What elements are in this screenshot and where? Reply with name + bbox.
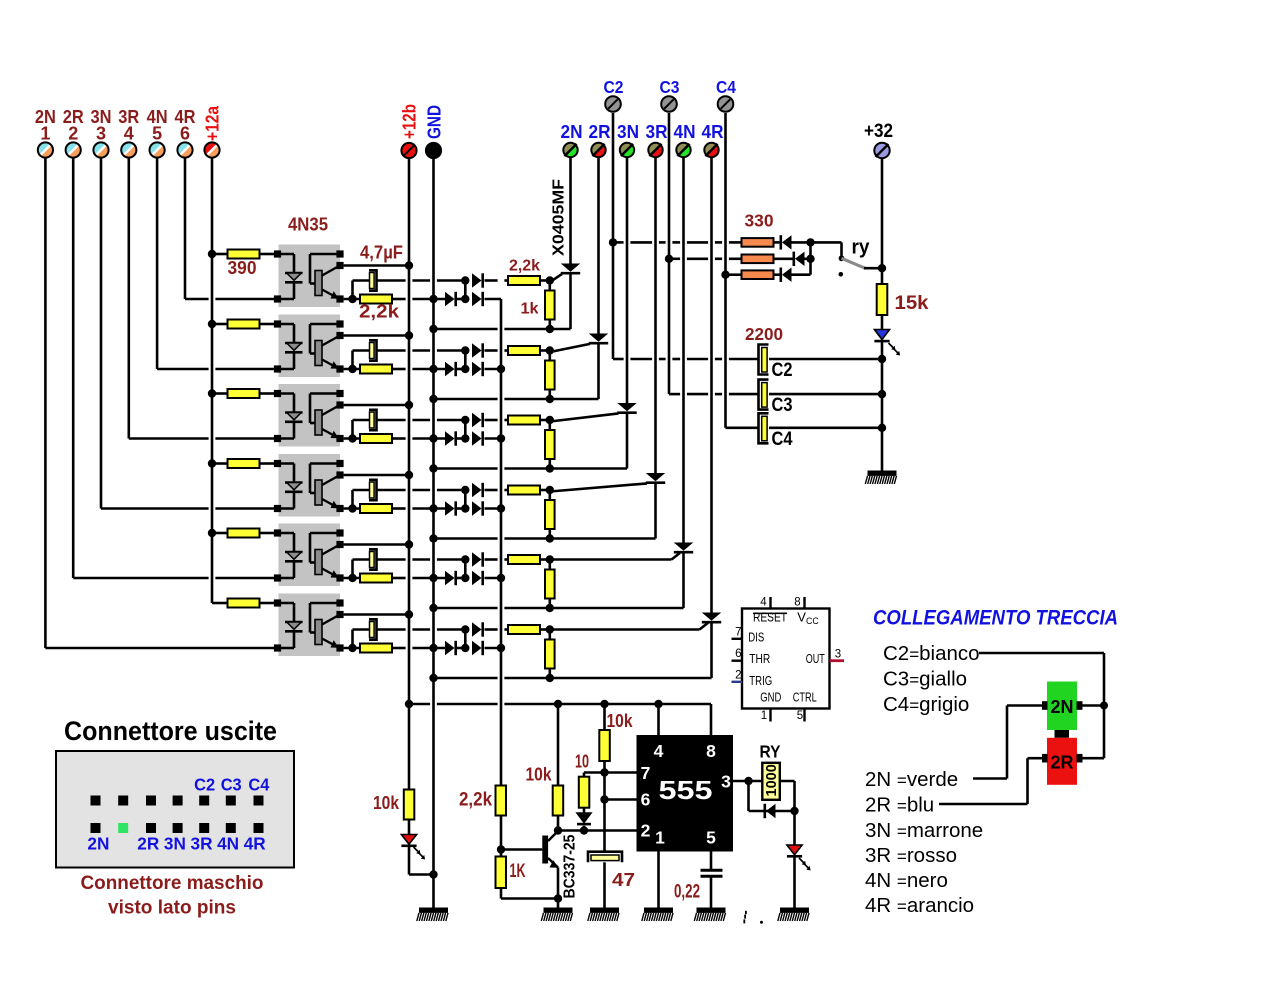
thyristor X0405MF row3: [617, 403, 636, 469]
wire C2 rail right: [769, 358, 882, 361]
node cap rail join y427.8: [878, 424, 886, 432]
svg-text:Connettore uscite: Connettore uscite: [64, 716, 277, 746]
svg-text:3N: 3N: [617, 122, 639, 142]
wire diode to pin2 wire: [583, 826, 586, 831]
node diode junction row2: [461, 365, 469, 373]
transistor Q1 BC337-25: [542, 831, 558, 868]
svg-text:2200: 2200: [745, 324, 783, 344]
wire gate wire row3: [550, 413, 619, 421]
node +12a junction row5: [208, 529, 216, 537]
LED red (+12b): [401, 835, 416, 845]
wire diode rail row5: [392, 577, 406, 580]
wire 2,2k out row1: [540, 279, 550, 282]
resistor 2,2k gate row6: [508, 625, 540, 634]
node 1K junction: [554, 894, 562, 902]
thyristor X0405MF row6: [702, 613, 721, 679]
svg-text:2,2k: 2,2k: [509, 258, 540, 275]
svg-text:7: 7: [735, 626, 741, 638]
wire RY left drop: [747, 781, 750, 811]
wire rail connector row6: [464, 630, 467, 649]
wire 2,2k out row4: [540, 489, 550, 492]
wire diode link row4: [457, 507, 468, 510]
node diode junction row6: [461, 644, 469, 652]
svg-text:C4=grigio: C4=grigio: [883, 693, 969, 716]
node bus junction row6: [497, 644, 505, 652]
wire gate wire row2: [550, 344, 590, 352]
node flyback junction: [790, 807, 798, 815]
diode 330 A: [782, 235, 792, 249]
connector pin top 7: [254, 796, 264, 806]
wire cathode rail row4: [434, 537, 498, 540]
wire +32 rail top: [881, 159, 884, 285]
wire +12a to R2: [212, 323, 228, 326]
svg-text:+12a: +12a: [203, 105, 223, 141]
diode row6 upper: [472, 622, 482, 636]
wire C3 rail right: [769, 393, 882, 396]
svg-text:C2=bianco: C2=bianco: [883, 642, 980, 665]
wire gate wire row5: [550, 558, 672, 561]
wire 1k top row3: [548, 424, 551, 430]
capacitor 4,7µF row4: [369, 480, 377, 500]
wire 330 row B: [669, 257, 680, 260]
svg-text:RESET: RESET: [753, 609, 787, 624]
legend pin right: [1077, 754, 1083, 763]
node gnd-rail/diode-rail row1: [429, 295, 437, 303]
svg-text:6: 6: [180, 124, 190, 144]
svg-text:4N35: 4N35: [288, 215, 328, 235]
resistor 2,2k row1: [360, 295, 392, 304]
node gnd-rail/diode-rail row4: [429, 504, 437, 512]
opto-coupler U1 4N35: [274, 245, 344, 308]
svg-text:DIS: DIS: [748, 629, 764, 644]
wire 330 row A: [613, 241, 624, 244]
wire cap wire row6: [353, 628, 370, 631]
wire 4N line to SCR5: [682, 158, 685, 543]
wire emitter to cap row1: [351, 281, 354, 300]
svg-text:C3: C3: [772, 394, 793, 416]
resistor 2,2k row4: [360, 504, 392, 513]
node diode junction row4: [461, 504, 469, 512]
wire diode rail row3: [392, 437, 406, 440]
svg-text:CTRL: CTRL: [793, 689, 817, 704]
wire diode rail row6: [392, 647, 406, 650]
wire C res-diode: [774, 273, 781, 276]
IC 555: [637, 735, 734, 852]
sensor pin 4N: [676, 143, 690, 157]
node +12a junction row1: [208, 250, 216, 258]
wire 10k to pin2: [557, 816, 560, 831]
resistor 2,2k gate row1: [508, 276, 540, 285]
resistor 2,2k row5: [360, 574, 392, 583]
wire diode link row5: [457, 577, 468, 580]
resistor 10: [579, 777, 590, 808]
wire pin 1 down: [44, 158, 47, 648]
svg-text:10k: 10k: [526, 764, 553, 785]
wire rail connector row2: [464, 351, 467, 370]
legend pin left: [1042, 754, 1048, 763]
svg-text:2N: 2N: [1050, 697, 1073, 717]
thyristor X0405MF row2: [589, 334, 608, 400]
pin +12b: [401, 143, 416, 158]
svg-text:5: 5: [797, 710, 803, 722]
svg-text:10: 10: [575, 751, 589, 772]
resistor 1K: [496, 857, 507, 889]
wire A res-diode: [774, 241, 781, 244]
node bus junction row5: [497, 574, 505, 582]
sensor pin 2N: [563, 143, 577, 157]
wire to bus row2: [485, 368, 502, 371]
resistor 330 B: [742, 255, 774, 264]
thyristor X0405MF row5: [674, 543, 693, 609]
connector body: [56, 751, 294, 868]
opto-coupler U6 4N35: [274, 594, 344, 657]
svg-text:330: 330: [745, 211, 774, 231]
svg-text:2: 2: [735, 669, 741, 681]
svg-text:C3: C3: [221, 775, 242, 795]
capacitor 4,7µF row1: [369, 270, 377, 290]
node +12b row2: [405, 331, 413, 339]
node bus junction row3: [497, 434, 505, 442]
node rail junction x604.5: [600, 700, 608, 708]
wire legend to 2R pin: [1083, 757, 1105, 760]
wire 10 to diode: [583, 808, 586, 813]
svg-text:3R: 3R: [191, 834, 213, 854]
node join B: [806, 255, 814, 263]
wire legend 2N wire: [973, 777, 1007, 780]
wire opto5 collector to +12b: [344, 543, 409, 546]
node collector junction: [554, 826, 562, 834]
connector pin top 4: [173, 796, 183, 806]
svg-text:GND: GND: [425, 105, 445, 139]
wire 2R line to SCR2: [597, 158, 600, 334]
connector pin top 3: [146, 796, 156, 806]
LED red (relay): [787, 845, 802, 855]
resistor 10k (pin7): [599, 730, 610, 761]
wire to 2,2k row5: [485, 558, 498, 561]
wire bus to trigger: [500, 299, 503, 786]
node gnd rail junction row4: [429, 534, 437, 542]
wire GND rail: [432, 158, 435, 908]
resistor R4 390: [228, 459, 260, 468]
connector pin 1 (2N): [38, 142, 53, 157]
connector pin bottom 3: [146, 823, 156, 833]
svg-text:5: 5: [152, 124, 162, 144]
wire 1k top row5: [548, 564, 551, 570]
wire 1k top row2: [548, 355, 551, 361]
diode row6 lower-right: [472, 641, 482, 655]
svg-text:BC337-25: BC337-25: [562, 834, 579, 898]
wire diode link row2: [457, 368, 468, 371]
svg-text:6: 6: [735, 648, 741, 660]
node gate junction row4: [546, 486, 554, 494]
diode row4 lower-right: [472, 501, 482, 515]
wire opto4 emitter: [344, 507, 360, 510]
svg-text:C2: C2: [772, 359, 793, 381]
wire LED down: [408, 846, 411, 874]
wire cathode rail row3: [434, 467, 498, 470]
svg-text:8: 8: [706, 741, 716, 761]
node gnd-rail/diode-rail row6: [429, 644, 437, 652]
wire join vertical: [809, 242, 812, 274]
svg-text:8: 8: [794, 597, 800, 609]
wire to 2,2k row4: [485, 489, 498, 492]
node gate junction row6: [546, 625, 554, 633]
wire pin7 wire: [605, 771, 637, 774]
node rail junction x409: [405, 700, 413, 708]
node gnd rail junction row3: [429, 464, 437, 472]
node gate junction row2: [546, 346, 554, 354]
wire 0,22 to ground: [710, 876, 713, 908]
sensor pin 2R: [591, 143, 605, 157]
node emitter row1: [348, 295, 356, 303]
resistor 330 C: [742, 270, 774, 279]
wire pin1 to ground: [657, 852, 660, 909]
ground (BC337): [541, 908, 572, 922]
wire cap rail row3: [377, 419, 406, 422]
opto-coupler U3 4N35: [274, 384, 344, 447]
resistor 1k row2: [545, 361, 555, 390]
wire 1k top row6: [548, 634, 551, 640]
node cap-rail junction row4: [461, 486, 469, 494]
node emitter row6: [348, 644, 356, 652]
diode row3 lower-left: [445, 431, 455, 445]
node 1k gnd junction row6: [546, 674, 554, 682]
wire pin6 wire: [605, 798, 637, 801]
resistor 1k row3: [545, 430, 555, 459]
svg-text:C3: C3: [660, 77, 680, 97]
wire diode link row3: [457, 437, 468, 440]
wire C4 rail right: [769, 426, 882, 429]
svg-text:TRIG: TRIG: [749, 673, 772, 688]
connector pin top 2: [118, 796, 128, 806]
diode row5 lower-right: [472, 571, 482, 585]
wire legend C2 wire: [979, 652, 1104, 655]
svg-text:3R =rosso: 3R =rosso: [865, 844, 957, 867]
node +12a junction row3: [208, 389, 216, 397]
wire to 2,2k row2: [485, 349, 498, 352]
wire row A to switch: [792, 241, 842, 244]
svg-text:2R: 2R: [1050, 753, 1073, 773]
svg-text:OUT: OUT: [806, 651, 825, 666]
connector pin top 6: [226, 796, 236, 806]
wire +12a to R1: [212, 253, 228, 256]
wire pin7 node down to 47: [603, 773, 606, 852]
diode row1 lower-left: [445, 292, 455, 306]
svg-text:10k: 10k: [607, 710, 634, 731]
LED arrows: [414, 847, 426, 860]
svg-text:3N: 3N: [164, 834, 186, 854]
svg-text:1: 1: [40, 124, 50, 144]
switch ry: [839, 255, 866, 276]
wire R6 to opto6 anode: [260, 602, 275, 605]
resistor R6 390: [228, 599, 260, 608]
ground (pin1): [642, 908, 673, 922]
wire 1k bottom row5: [548, 599, 551, 609]
legend pin right: [1077, 701, 1083, 710]
svg-text:C4: C4: [716, 77, 736, 97]
diode to pin2: [577, 813, 591, 823]
connector pin bottom 2: [118, 823, 128, 833]
wire row C join: [792, 273, 811, 276]
svg-text:C2: C2: [194, 775, 215, 795]
node +12b row6: [405, 610, 413, 618]
diode row5 upper: [472, 552, 482, 566]
wire +12a rail: [211, 158, 214, 603]
wire gate wire row4: [550, 483, 647, 491]
wire R1 to opto1 anode: [260, 253, 275, 256]
node cap-rail junction row1: [461, 276, 469, 284]
connector pin top 5: [199, 796, 209, 806]
wire pin8 stub: [710, 704, 713, 735]
resistor 2,2k row2: [360, 365, 392, 374]
resistor 1k row6: [545, 640, 555, 669]
wire 330 row C: [726, 273, 742, 276]
wire 1k top row4: [548, 494, 551, 500]
svg-text:0,22: 0,22: [674, 882, 700, 903]
svg-text:Connettore maschio: Connettore maschio: [81, 872, 264, 894]
wire pin3 wire: [733, 780, 795, 783]
node emitter row2: [348, 365, 356, 373]
wire RY right drop: [793, 781, 796, 845]
wire rail connector row1: [464, 281, 467, 300]
svg-text:2,2k: 2,2k: [359, 301, 400, 322]
node RY left junction: [744, 777, 752, 785]
capacitor 4,7µF row2: [369, 340, 377, 360]
node diode junction row1: [461, 295, 469, 303]
wire emitter to cap row5: [351, 560, 354, 579]
wire to 2,2k row3: [485, 419, 498, 422]
wire to bus row6: [485, 647, 502, 650]
wire cap rail row6: [377, 628, 406, 631]
connector pin bottom 6: [226, 823, 236, 833]
wire pin 6 down: [184, 158, 187, 299]
svg-text:4R: 4R: [244, 834, 266, 854]
node gate junction row5: [546, 555, 554, 563]
IC pinout reference 555: [732, 597, 845, 723]
wire R3 to opto3 anode: [260, 392, 275, 395]
wire 2N line to SCR1: [569, 158, 572, 264]
connector pin 2 (2R): [66, 142, 81, 157]
wire 1K down: [500, 888, 503, 899]
wire C3 rail left: [669, 393, 680, 396]
resistor 2,2k base: [496, 786, 507, 816]
svg-text:2N: 2N: [87, 834, 109, 854]
svg-text:3R: 3R: [646, 122, 668, 142]
svg-text:C4: C4: [248, 775, 269, 795]
wire 1k bottom row4: [548, 529, 551, 539]
sensor pin 3R: [648, 143, 662, 157]
resistor 2,2k row3: [360, 434, 392, 443]
wire switch to +32 rail: [864, 267, 882, 270]
node pin6 junction: [600, 795, 608, 803]
wire C3 line: [668, 113, 671, 394]
wire 4R line to SCR6: [710, 158, 713, 613]
node +12a junction row2: [208, 320, 216, 328]
svg-text:390: 390: [228, 257, 257, 278]
diode row5 lower-left: [445, 571, 455, 585]
flyback diode: [766, 804, 776, 818]
wire to 2,2k row6: [485, 628, 498, 631]
node bus junction row2: [497, 365, 505, 373]
wire pin 4 down: [128, 158, 131, 439]
svg-text:2R: 2R: [589, 122, 611, 142]
wire pin 3 to opto4 cathode: [101, 507, 209, 510]
wire pin 5 to opto2 cathode: [157, 368, 209, 371]
diode row1 lower-right: [472, 292, 482, 306]
wire rail connector row5: [464, 560, 467, 579]
wire pin 6 to opto1 cathode: [185, 298, 209, 301]
svg-text:5: 5: [706, 828, 716, 848]
node cap rail join y359: [878, 355, 886, 363]
resistor 2,2k row6: [360, 644, 392, 653]
node base junction: [497, 845, 505, 853]
svg-text:6: 6: [641, 790, 651, 810]
opto-coupler U2 4N35: [274, 315, 344, 378]
node C3 branch: [665, 255, 673, 263]
node cap-rail junction row2: [461, 346, 469, 354]
resistor 15k: [877, 284, 888, 315]
node C2 branch: [609, 238, 617, 246]
svg-text:2R =blu: 2R =blu: [865, 794, 934, 817]
node gnd-rail/diode-rail row2: [429, 365, 437, 373]
connector pin bottom 5: [199, 823, 209, 833]
svg-text:15k: 15k: [895, 293, 929, 314]
diode row2 upper: [472, 343, 482, 357]
wire diode rail row1: [392, 298, 406, 301]
wire C2 line: [612, 113, 615, 359]
wire opto6 emitter: [344, 647, 360, 650]
diode 330 C: [782, 268, 792, 282]
svg-text:C2: C2: [604, 77, 624, 97]
pin C4: [718, 96, 734, 112]
svg-text:10k: 10k: [373, 792, 400, 813]
wire 2,2k out row2: [540, 349, 550, 352]
wire cathode rail row1: [434, 328, 498, 331]
node gnd rail junction row5: [429, 604, 437, 612]
wire 1k bottom row2: [548, 390, 551, 400]
wire +12b rail: [408, 158, 411, 790]
wire 1k bottom row6: [548, 669, 551, 679]
wire cap wire row2: [353, 349, 370, 352]
connector pin 5 (4N): [150, 142, 165, 157]
wire diode rail row4: [392, 507, 406, 510]
svg-text:7: 7: [641, 763, 651, 783]
wire legend 2N vertical: [1006, 706, 1009, 779]
wire opto3 collector to +12b: [344, 404, 409, 407]
wire cap rail row4: [377, 489, 406, 492]
wire legend 2N pin to node: [1083, 704, 1105, 707]
ground (relay led): [778, 908, 809, 922]
diode row1 upper: [472, 273, 482, 287]
diode row2 lower-right: [472, 362, 482, 376]
wire 3R line to SCR4: [654, 158, 657, 473]
node gate junction row1: [546, 276, 554, 284]
wire 2,2k out row5: [540, 558, 550, 561]
LED arrows: [889, 343, 901, 356]
wire legend 2N to pin: [1007, 704, 1043, 707]
svg-text:2,2k: 2,2k: [459, 790, 492, 811]
resistor R3 390: [228, 389, 260, 398]
wire 2,2k out row3: [540, 419, 550, 422]
resistor 10k (pin2): [553, 786, 564, 816]
wire emitter to cap row2: [351, 351, 354, 370]
resistor R5 390: [228, 529, 260, 538]
node diode junction: [580, 826, 588, 834]
svg-text:3N =marrone: 3N =marrone: [865, 819, 983, 842]
wire LED to ground rail: [881, 341, 884, 470]
wire 10k to LED: [408, 820, 411, 835]
node emitter row4: [348, 504, 356, 512]
